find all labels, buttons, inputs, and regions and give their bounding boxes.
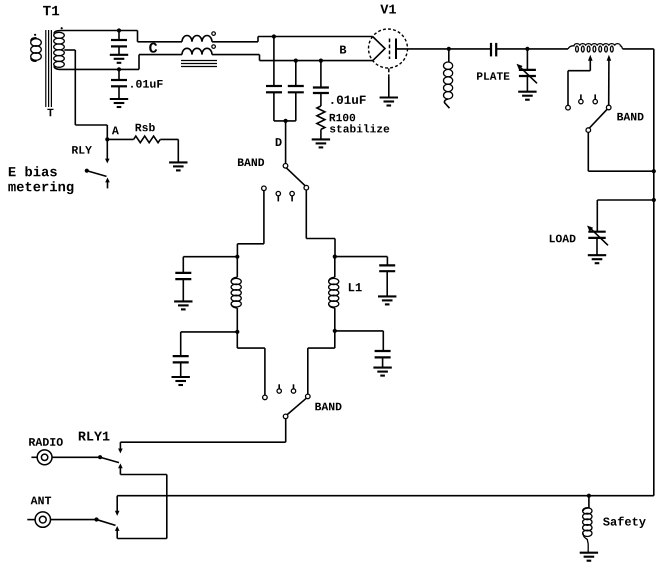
ground V1 grid xyxy=(380,98,398,106)
wire tank right to lower switch xyxy=(308,331,335,394)
wire Rsb to ground xyxy=(160,139,178,162)
inductor Safety choke xyxy=(583,496,592,553)
wire grid to ground xyxy=(388,68,390,97)
label B xyxy=(340,46,346,54)
ground Safety xyxy=(580,553,598,561)
label BAND upper xyxy=(238,158,264,166)
ground PLATE cap xyxy=(518,92,536,100)
capacitor blocking xyxy=(491,43,496,57)
node junction neutralizing B xyxy=(294,59,298,63)
node junction PLATE cap xyxy=(525,47,529,51)
wire secondary top lead xyxy=(61,31,182,42)
ground LOAD xyxy=(588,255,606,263)
node junction Safety xyxy=(587,494,591,498)
label C xyxy=(149,43,157,53)
relay RLY1 common xyxy=(98,455,102,459)
wire ANT to relay xyxy=(51,519,97,521)
wire right edge xyxy=(653,49,655,496)
relay RLY lower contact xyxy=(105,178,110,189)
relay RLY1 lower contact xyxy=(118,463,123,474)
capacitor PLATE tuning xyxy=(517,49,538,92)
capacitor input bypass xyxy=(111,31,127,47)
wire node D bus xyxy=(274,120,296,122)
capacitor .01uF input xyxy=(111,69,127,86)
switch BAND tank contact 1 xyxy=(566,105,571,110)
label RLY1 xyxy=(79,432,110,441)
wire secondary bottom lead xyxy=(61,55,182,70)
label RLY xyxy=(72,146,92,154)
relay ANT upper contact xyxy=(115,496,120,516)
wire bottom line to V1 xyxy=(212,55,373,61)
switch BAND tank wiper xyxy=(586,109,607,132)
connector ANT xyxy=(27,512,50,527)
label E bias xyxy=(9,166,57,176)
node junction tank right top xyxy=(333,255,337,259)
label L1 xyxy=(349,283,362,291)
node junction .01uF xyxy=(117,67,121,71)
relay ANT wiper xyxy=(97,520,115,526)
transformer T1 core xyxy=(46,30,52,107)
capacitor tank bottom-left xyxy=(173,332,189,377)
capacitor tank top-left xyxy=(175,257,191,302)
switch BAND lower contact left xyxy=(263,395,268,400)
label ANT xyxy=(31,497,52,505)
node junction grid cap xyxy=(319,59,323,63)
resistor Rsb xyxy=(134,123,161,143)
switch BAND tank unused pins xyxy=(579,94,598,103)
relay RLY1 wiper xyxy=(101,458,119,463)
resistor R100 xyxy=(317,93,325,139)
ground tank bottom-right xyxy=(373,368,391,376)
wire to top-left cap xyxy=(183,256,237,258)
label LOAD xyxy=(550,235,576,243)
switch BAND upper contact left xyxy=(262,186,267,191)
transformer T1 primary winding xyxy=(31,34,42,62)
switch BAND lower contact right xyxy=(306,394,311,399)
switch BAND upper unused pins xyxy=(276,191,294,201)
transformer T1 secondary winding xyxy=(54,27,65,69)
switch BAND upper wiper xyxy=(283,164,305,186)
label RADIO xyxy=(29,438,63,446)
label Safety xyxy=(603,517,646,528)
inductor bifilar bottom winding xyxy=(182,45,215,55)
capacitor tank bottom-right xyxy=(375,331,391,368)
wire to bottom-right cap xyxy=(335,330,384,332)
wire blocking cap to tank xyxy=(496,48,568,50)
node junction tank right bottom xyxy=(333,329,337,333)
inductor tank left xyxy=(231,257,241,332)
switch BAND lower wiper xyxy=(283,398,306,418)
switch BAND lower unused pins xyxy=(277,384,296,393)
label R100 xyxy=(330,114,355,122)
label metering xyxy=(8,181,73,194)
inductor plate RFC xyxy=(444,49,453,108)
relay ANT common xyxy=(94,517,98,521)
wire node D down xyxy=(285,121,287,164)
ground .01uF input xyxy=(110,86,128,107)
switch BAND upper contact right xyxy=(304,185,309,190)
capacitor neutralizing from bottom line xyxy=(288,61,304,121)
inductor L1 xyxy=(329,257,339,331)
capacitor LOAD xyxy=(587,226,608,256)
wire to bottom-left cap xyxy=(181,331,238,333)
label T1 xyxy=(43,6,59,15)
node junction tank left top xyxy=(235,255,239,259)
label .01uF grid xyxy=(331,95,365,104)
node junction neutralizing A xyxy=(272,34,276,38)
ground input bypass xyxy=(110,46,128,62)
relay RLY upper contact xyxy=(105,139,110,163)
bifilar choke core xyxy=(181,61,217,67)
ground tank top-left xyxy=(174,301,192,309)
inductor tank coil xyxy=(568,44,623,52)
tube V1 grid xyxy=(389,39,391,60)
ground R100 xyxy=(312,139,330,147)
label V1 xyxy=(380,5,396,14)
wire LOAD branch xyxy=(597,200,654,232)
wire to top-right cap xyxy=(335,256,388,258)
node D xyxy=(276,119,288,146)
node junction LOAD xyxy=(652,198,656,202)
tube V1 plate xyxy=(395,39,397,60)
label BAND tank xyxy=(617,113,643,121)
relay ANT lower contact xyxy=(115,526,120,539)
relay RLY1 upper contact xyxy=(118,442,123,453)
wire top line to V1 xyxy=(212,37,373,42)
capacitor .01uF grid xyxy=(313,61,329,93)
wire tank coil to right edge xyxy=(623,48,654,50)
switch BAND tank contact 2 xyxy=(606,105,611,110)
label stabilize xyxy=(330,124,389,132)
switch BAND tank tap arrow 2 xyxy=(607,55,612,105)
ground Rsb xyxy=(169,162,187,170)
capacitor tank top-right xyxy=(379,257,395,297)
wire RLY1 lower to ANT relay xyxy=(117,475,167,539)
wire tank wiper to right edge xyxy=(588,132,654,171)
label BAND lower xyxy=(315,403,341,411)
ground tank bottom-left xyxy=(172,377,190,385)
wire node A to Rsb xyxy=(107,138,133,140)
wire tank left to lower switch xyxy=(237,332,265,395)
node junction top bypass xyxy=(117,28,121,32)
capacitor neutralizing from top line xyxy=(266,37,282,121)
wire plate lead xyxy=(396,48,491,50)
label T xyxy=(47,109,53,117)
wire output bus xyxy=(117,495,654,497)
tube V1 cathode xyxy=(373,37,385,61)
node A xyxy=(105,127,119,142)
label .01uF input xyxy=(131,80,162,88)
wire lower wiper to RLY1 xyxy=(120,419,285,443)
node junction tank wiper xyxy=(652,169,656,173)
relay RLY wiper xyxy=(85,169,107,177)
node junction RFC xyxy=(447,47,451,51)
wire secondary tap to node A xyxy=(64,50,107,139)
node junction tank left bottom xyxy=(235,330,239,334)
label PLATE xyxy=(477,72,509,79)
wire RADIO to RLY1 xyxy=(52,456,100,458)
connector RADIO xyxy=(31,450,52,465)
ground tank top-right xyxy=(378,296,396,304)
wire left contact to tank xyxy=(237,191,264,257)
switch BAND tank tap arrow 1 xyxy=(568,55,593,106)
wire right contact to tank xyxy=(306,190,335,257)
inductor bifilar top winding xyxy=(182,32,215,42)
tube V1 envelope xyxy=(369,29,408,68)
